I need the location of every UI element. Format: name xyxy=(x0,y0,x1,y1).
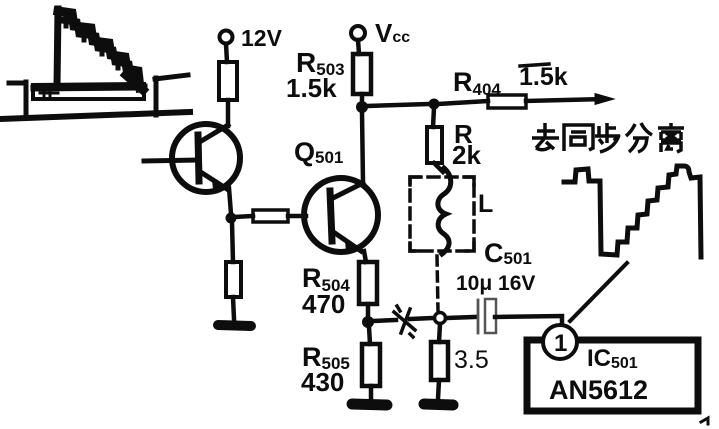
wire C501 to pin 1 xyxy=(495,316,562,325)
svg-text:1: 1 xyxy=(554,330,567,357)
wire node B to node C xyxy=(366,104,431,106)
wire R 2k to L box xyxy=(434,163,443,172)
overline on 1.5 xyxy=(520,64,549,66)
inductor L dashed box xyxy=(410,168,474,254)
capacitor C501 xyxy=(478,299,496,333)
wire R503 to node B xyxy=(360,94,365,103)
wire node D right xyxy=(373,320,396,321)
wire base stub xyxy=(144,160,197,161)
wire Q501 emitter down xyxy=(364,251,366,262)
Vcc terminal xyxy=(351,26,365,40)
wire to Q501 base xyxy=(288,214,306,219)
ground (left) xyxy=(218,325,251,326)
node A emitter junction xyxy=(226,213,237,224)
wire R505 to ground xyxy=(369,386,374,399)
wire Q501 collector up xyxy=(362,112,363,183)
wire Vcc to R503 xyxy=(358,40,359,54)
svg-text:470: 470 xyxy=(302,289,345,319)
ground (3.5) xyxy=(424,404,453,405)
resistor R504 xyxy=(359,262,377,304)
svg-text:12V: 12V xyxy=(241,25,283,51)
resistor emitter (left vertical) xyxy=(226,262,241,297)
corner mark bottom right xyxy=(701,418,708,424)
label 去同步分离 (drawn glyphs) xyxy=(532,123,684,152)
open node circle xyxy=(435,313,446,324)
X adjustment mark xyxy=(394,306,415,337)
wire node C down to R 2k xyxy=(433,108,434,127)
wire 3.5 to ground xyxy=(438,380,439,399)
node C xyxy=(429,99,440,110)
wire node D to R505 xyxy=(369,327,370,344)
wire node A down xyxy=(232,222,233,262)
transistor V1 (left) xyxy=(172,124,240,192)
wire 12V to resistor xyxy=(226,44,227,62)
transistor Q501 xyxy=(304,178,378,252)
resistor R505 xyxy=(362,344,380,386)
resistor R503 xyxy=(353,54,371,94)
svg-text:1.5k: 1.5k xyxy=(286,73,337,103)
wire open node down to 3.5 resistor xyxy=(439,324,440,342)
wire resistor to collector xyxy=(226,100,231,126)
node B xyxy=(356,101,368,113)
node D xyxy=(362,316,374,328)
input staircase waveform xyxy=(0,9,190,119)
svg-text:2k: 2k xyxy=(452,140,481,170)
svg-text:10μ 16V: 10μ 16V xyxy=(456,272,535,295)
output staircase waveform xyxy=(564,166,701,257)
resistor 3.5 xyxy=(431,342,448,380)
wire node C to R404 xyxy=(438,101,488,104)
wire arrow to sync separator xyxy=(526,99,603,101)
pointer line xyxy=(570,263,627,321)
svg-text:3.5: 3.5 xyxy=(454,346,489,374)
resistor R 2k xyxy=(427,127,442,163)
wire node A to coupling resistor xyxy=(234,216,253,217)
ground (R505) xyxy=(352,404,387,405)
svg-text:430: 430 xyxy=(301,367,344,397)
resistor R404 xyxy=(488,95,526,108)
dashed wire L to open node xyxy=(437,256,438,311)
resistor base coupling (horizontal) xyxy=(253,210,288,222)
wire emitter down xyxy=(229,188,231,214)
wire open node to C501 xyxy=(446,317,475,318)
svg-text:AN5612: AN5612 xyxy=(549,375,648,405)
IC501 box xyxy=(527,340,698,411)
wire to ground left xyxy=(233,297,234,319)
resistor collector load (left) xyxy=(219,62,237,100)
wire X to open node xyxy=(410,318,433,319)
12V supply terminal xyxy=(220,31,233,44)
wire R504 to node D xyxy=(366,304,371,317)
svg-text:L: L xyxy=(478,190,493,218)
pin 1 circle xyxy=(543,325,577,359)
